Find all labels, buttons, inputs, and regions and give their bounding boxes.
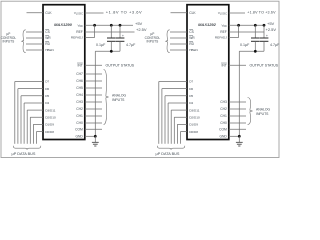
pin label CS U1 [45,30,50,34]
svg-text:INPUTS: INPUTS [112,98,125,102]
pin label WR U2 [189,36,195,40]
wire analog input CH3 U1 [85,101,102,103]
pin label RD U1 [45,42,50,46]
label ANALOG INPUTS U2 [256,107,270,116]
wire analog input CH4 U1 [85,94,102,96]
svg-text:REFADJ: REFADJ [215,36,227,40]
brace uP control inputs U1 [22,30,26,53]
svg-text:D2/D10: D2/D10 [45,115,56,119]
wire INT output U2 [229,64,246,66]
svg-text:MAX1292: MAX1292 [198,22,217,27]
wire GND U1 [85,135,96,137]
svg-text:REFADJ: REFADJ [71,36,83,40]
wire analog input CH6 U1 [85,80,102,82]
svg-text:INPUTS: INPUTS [3,40,15,44]
svg-text:D3/D11: D3/D11 [189,108,200,112]
svg-text:COM: COM [75,128,83,132]
label ANALOG INPUTS U1 [112,93,126,102]
svg-text:D4: D4 [45,101,49,105]
capacitor C1 0.1µF U2 [251,25,260,51]
wire analog input CH5 U1 [85,87,102,89]
svg-text:INT: INT [77,64,82,68]
IC U1 MAX1290 body [43,5,85,140]
wire data bus line D6 U2 [162,89,187,144]
svg-text:D5: D5 [45,94,49,98]
pin label WR U1 [45,36,51,40]
svg-text:+: + [122,34,124,38]
wire CS input U2 [170,31,187,33]
capacitor C2 4.7µF U2 [260,25,269,51]
svg-text:OUTPUT STATUS: OUTPUT STATUS [106,64,135,68]
node junction GND U1 [94,135,97,138]
svg-text:0.1µF: 0.1µF [240,43,250,47]
svg-text:4.7µF: 4.7µF [270,43,280,47]
node junction VDD-C2 U1 [119,24,122,27]
wire REFADJ to VDD U2 [229,25,239,37]
wire data bus line D5 U1 [21,96,43,144]
wire analog input CH2 U1 [85,108,102,110]
svg-text:CH3: CH3 [76,100,83,104]
wire ground stem U2 [238,136,240,142]
svg-text:D4: D4 [189,101,193,105]
node junction VDD-C2 U2 [263,24,266,27]
svg-text:+1.8V TO +3.6V: +1.8V TO +3.6V [106,9,142,14]
svg-text:RD: RD [189,42,194,46]
svg-text:D6: D6 [189,87,193,91]
label uP CONTROL INPUTS U2 [145,32,161,43]
wire CLK input U1 [27,12,44,14]
svg-text:INT: INT [221,64,226,68]
svg-text:+2.5V: +2.5V [266,27,277,32]
svg-text:D0/D8: D0/D8 [189,130,198,134]
wire data bus line D7 U2 [159,82,187,144]
wire REF U2 [229,31,264,33]
node junction GND U2 [238,135,241,138]
wire capacitor ground rail U1 [95,51,120,136]
svg-text:CH2: CH2 [220,107,227,111]
svg-text:CH1: CH1 [76,114,83,118]
wire VLOGIC supply U2 [229,12,245,14]
svg-text:HBEN: HBEN [45,48,54,52]
svg-text:D2/D10: D2/D10 [189,115,200,119]
svg-text:D1/D9: D1/D9 [189,123,198,127]
wire analog input CH1 U2 [229,115,246,117]
ground symbol U2 [236,141,243,143]
svg-text:CH0: CH0 [220,121,227,125]
svg-text:ANALOG: ANALOG [112,93,126,97]
svg-text:CH1: CH1 [220,114,227,118]
wire analog input CH7 U1 [85,73,102,75]
wire data bus line D6 U1 [18,89,43,144]
pin label INT U1 [77,63,83,67]
wire data bus line D1/D9 U2 [177,124,187,143]
svg-text:CH7: CH7 [76,72,83,76]
wire analog input CH0 U1 [85,122,102,124]
wire CLK input U2 [171,12,188,14]
bus brace uP data bus U1 [13,146,41,150]
wire capacitor ground rail U2 [239,51,264,136]
capacitor C1 0.1µF U1 [107,25,116,51]
svg-text:D1/D9: D1/D9 [45,123,54,127]
wire analog input CH3 U2 [229,101,246,103]
node junction VDD-C1 U2 [254,24,257,27]
wire INT output U1 [85,64,102,66]
svg-text:WR: WR [45,36,51,40]
wire RD input U1 [26,43,43,45]
wire data bus line D4 U1 [24,103,43,144]
svg-text:CLK: CLK [189,11,196,15]
wire analog input CH1 U1 [85,115,102,117]
svg-text:MAX1290: MAX1290 [54,22,73,27]
svg-text:COM: COM [219,128,227,132]
wire COM U2 [229,128,246,130]
capacitor C2 4.7µF U1 [116,25,125,51]
svg-text:D3/D11: D3/D11 [45,108,56,112]
wire ground stem U1 [94,136,96,142]
svg-text:GND: GND [219,135,227,139]
node junction rail-C1 U2 [254,50,257,53]
svg-text:µP DATA BUS: µP DATA BUS [12,152,36,156]
svg-text:4.7µF: 4.7µF [126,43,136,47]
wire VDD supply U2 [229,24,265,26]
svg-text:+5V: +5V [267,21,275,26]
wire COM U1 [85,128,102,130]
brace uP control inputs U2 [166,30,170,53]
wire analog input CH2 U2 [229,108,246,110]
svg-text:ANALOG: ANALOG [256,107,270,111]
wire data bus line D3/D11 U1 [27,110,43,144]
wire data bus line D2/D10 U2 [174,117,187,144]
wire data bus line D7 U1 [15,82,43,144]
wire REFADJ to VDD U1 [85,25,95,37]
wire GND U2 [229,135,240,137]
wire VDD supply U1 [85,24,133,26]
svg-text:CH4: CH4 [76,93,83,97]
svg-text:INPUTS: INPUTS [147,40,159,44]
svg-text:HBEN: HBEN [189,48,198,52]
pin label INT U2 [221,63,227,67]
svg-text:µP DATA BUS: µP DATA BUS [156,152,180,156]
wire data bus line D2/D10 U1 [30,117,43,144]
svg-text:D5: D5 [189,94,193,98]
svg-text:CH5: CH5 [76,86,83,90]
svg-text:+1.8V TO +3.6V: +1.8V TO +3.6V [247,10,276,14]
node junction VDD-REFADJ U1 [93,24,96,27]
node junction VDD-C1 U1 [110,24,113,27]
svg-text:0.1µF: 0.1µF [96,43,106,47]
svg-text:D6: D6 [45,87,49,91]
label uP CONTROL INPUTS U1 [1,32,17,43]
wire RD input U2 [170,43,187,45]
svg-text:REF: REF [220,30,227,34]
svg-text:GND: GND [75,135,83,139]
wire data bus line D0/D8 U2 [181,132,188,144]
svg-text:REF: REF [76,30,83,34]
wire WR input U1 [26,37,43,39]
wire data bus line D1/D9 U1 [33,124,43,143]
svg-text:D0/D8: D0/D8 [45,130,54,134]
svg-text:CH6: CH6 [76,79,83,83]
wire HBEN input U1 [26,49,43,51]
svg-text:CH3: CH3 [220,100,227,104]
svg-text:+5V: +5V [135,21,143,26]
wire VLOGIC supply U1 [85,12,104,14]
svg-text:RD: RD [45,42,50,46]
svg-text:INPUTS: INPUTS [256,112,269,116]
svg-text:CLK: CLK [45,11,52,15]
wire data bus line D5 U2 [165,96,187,144]
wire CS input U1 [26,31,43,33]
brace analog inputs U2 [248,98,253,125]
node junction rail-C1 U1 [110,50,113,53]
svg-text:CS: CS [45,30,50,34]
pin label RD U2 [189,42,194,46]
IC U2 MAX1292 body [187,5,229,140]
wire REF U1 [85,31,135,33]
wire data bus line D3/D11 U2 [171,110,187,144]
svg-text:CS: CS [189,30,194,34]
svg-text:+: + [266,34,268,38]
wire WR input U2 [170,37,187,39]
svg-text:D7: D7 [45,80,49,84]
svg-text:WR: WR [189,36,195,40]
wire analog input CH0 U2 [229,122,246,124]
wire HBEN input U2 [170,49,187,51]
svg-text:CH0: CH0 [76,121,83,125]
svg-text:OUTPUT STATUS: OUTPUT STATUS [250,64,279,68]
figure outer frame [1,1,279,157]
svg-text:D7: D7 [189,80,193,84]
svg-text:CH2: CH2 [76,107,83,111]
ground symbol U1 [92,141,99,143]
bus brace uP data bus U2 [157,146,185,150]
wire data bus line D0/D8 U1 [37,132,44,144]
svg-text:+2.5V: +2.5V [136,27,147,32]
pin label CS U2 [189,30,194,34]
brace analog inputs U1 [104,70,109,125]
node junction VDD-REFADJ U2 [237,24,240,27]
wire data bus line D4 U2 [168,103,187,144]
